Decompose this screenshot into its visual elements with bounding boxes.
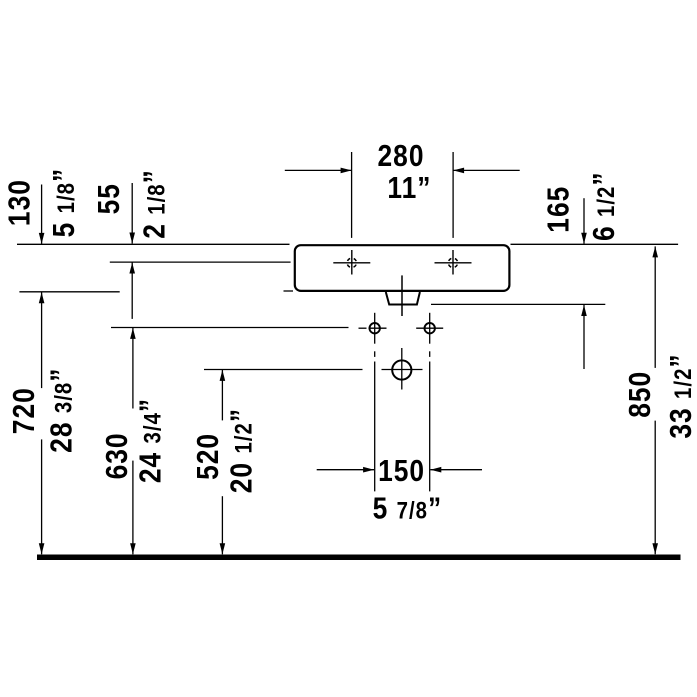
- svg-text:5 1/8”: 5 1/8”: [47, 168, 81, 238]
- svg-text:630: 630: [100, 432, 134, 479]
- svg-text:520: 520: [191, 433, 225, 480]
- svg-text:850: 850: [623, 371, 657, 418]
- svg-text:55: 55: [92, 183, 126, 214]
- svg-text:165: 165: [541, 186, 575, 233]
- svg-text:130: 130: [3, 179, 37, 226]
- svg-text:6 1/2”: 6 1/2”: [587, 171, 621, 241]
- svg-text:720: 720: [7, 387, 41, 434]
- svg-text:150: 150: [378, 454, 425, 488]
- svg-text:280: 280: [378, 139, 425, 173]
- svg-text:33 1/2”: 33 1/2”: [664, 353, 697, 438]
- svg-text:20 1/2”: 20 1/2”: [225, 408, 259, 493]
- svg-text:24 3/4”: 24 3/4”: [133, 398, 167, 483]
- svg-text:2 1/8”: 2 1/8”: [138, 169, 172, 239]
- svg-text:28 3/8”: 28 3/8”: [44, 368, 78, 453]
- svg-text:5 7/8”: 5 7/8”: [373, 492, 443, 526]
- svg-text:11”: 11”: [387, 171, 431, 205]
